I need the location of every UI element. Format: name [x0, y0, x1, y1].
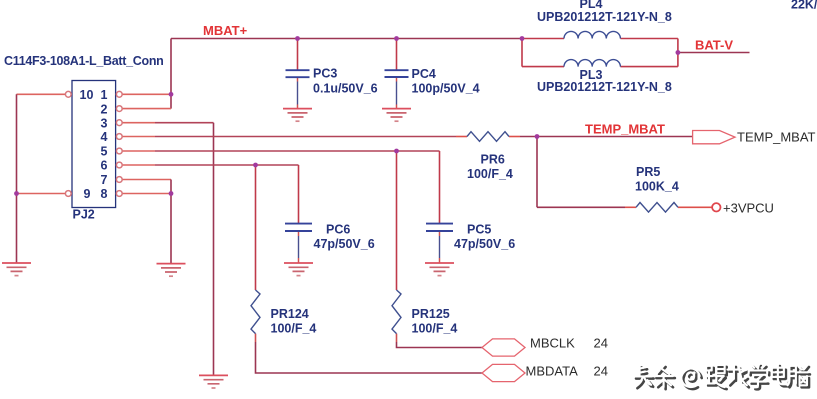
svg-text:6: 6: [101, 159, 108, 173]
svg-text:22K/: 22K/: [791, 0, 817, 12]
svg-text:2: 2: [101, 102, 108, 116]
PJ2 pin circles right: [116, 91, 122, 196]
svg-text:PJ2: PJ2: [73, 208, 95, 222]
wire BAT-V: [678, 52, 750, 54]
svg-text:MBCLK: MBCLK: [530, 336, 575, 351]
wire pin4 run to PR6: [122, 136, 467, 138]
PJ2 pin circles left: [65, 91, 71, 196]
ground PC3: [283, 109, 312, 122]
wire pin5 run: [122, 150, 440, 152]
wire PR124 bottom lead + MBDATA run: [256, 334, 483, 373]
wire MBAT+ main horizontal: [171, 38, 522, 40]
svg-text:100/F_4: 100/F_4: [467, 167, 513, 181]
wire PR125 bottom lead + MBCLK run: [397, 334, 483, 348]
wire MBAT+ vertical corner x=171: [170, 39, 172, 109]
svg-text:PR5: PR5: [636, 165, 660, 179]
capacitor PC5: [426, 224, 453, 231]
svg-text:100K_4: 100K_4: [635, 180, 679, 194]
wire PC3 top lead: [297, 39, 299, 71]
svg-text:UPB201212T-121Y-N_8: UPB201212T-121Y-N_8: [537, 80, 672, 94]
wire to PR5: [537, 206, 636, 208]
svg-text:0.1u/50V_6: 0.1u/50V_6: [313, 82, 378, 96]
svg-text:5: 5: [101, 145, 108, 159]
wire pin7 stub: [122, 179, 171, 181]
connector PJ2 body: [72, 81, 116, 208]
svg-text:BAT-V: BAT-V: [695, 38, 733, 53]
wire left vertical to ground: [16, 94, 18, 263]
svg-text:MBDATA: MBDATA: [526, 363, 579, 378]
svg-text:PR6: PR6: [481, 153, 505, 167]
wire PR124 top lead: [255, 165, 257, 290]
svg-text:100p/50V_4: 100p/50V_4: [412, 82, 480, 96]
wire PC6 bottom lead: [298, 231, 300, 263]
inductor PL3: [564, 60, 620, 67]
svg-text:1: 1: [101, 88, 108, 102]
ground PC4: [382, 109, 411, 122]
wire pin10 stub: [17, 93, 66, 95]
wire PC4 top lead: [396, 39, 398, 71]
svg-text:100/F_4: 100/F_4: [412, 322, 458, 336]
power terminal circle +3VPCU: [712, 203, 720, 211]
capacitor PC4: [385, 70, 409, 77]
wire PL left branch: [522, 39, 564, 67]
svg-text:24: 24: [594, 336, 608, 351]
wire TEMP junction vertical: [536, 137, 538, 208]
svg-text:TEMP_MBAT: TEMP_MBAT: [737, 130, 816, 145]
ground pin7/8: [157, 264, 186, 277]
wire pin7/8 vertical to ground: [170, 180, 172, 264]
resistor PR124: [251, 290, 260, 334]
svg-text:PR125: PR125: [412, 307, 450, 321]
svg-text:24: 24: [594, 363, 608, 378]
ground left: [2, 263, 31, 276]
wire pin3 vertical to ground: [213, 123, 215, 376]
svg-text:PC3: PC3: [313, 67, 337, 81]
resistor PR5: [636, 203, 678, 213]
svg-text:TEMP_MBAT: TEMP_MBAT: [585, 122, 665, 137]
svg-text:7: 7: [101, 173, 108, 187]
svg-text:UPB201212T-121Y-N_8: UPB201212T-121Y-N_8: [537, 10, 672, 24]
off-page tag TEMP_MBAT: [693, 131, 735, 144]
wire pin2 stub: [122, 108, 171, 110]
wire pin6 run: [122, 164, 299, 166]
off-page tag MBCLK: [482, 339, 525, 356]
capacitor PC6: [285, 224, 312, 231]
ground PC6: [284, 263, 313, 276]
ground bottom pin3: [199, 375, 228, 388]
PJ2 pin numbers: [80, 88, 108, 201]
svg-text:PR124: PR124: [271, 307, 309, 321]
svg-text:C114F3-108A1-L_Batt_Conn: C114F3-108A1-L_Batt_Conn: [4, 54, 164, 68]
inductor PL4: [564, 31, 620, 38]
wire PC3 bottom lead: [297, 77, 299, 108]
svg-text:MBAT+: MBAT+: [203, 23, 248, 38]
wire pin9 stub: [17, 193, 66, 195]
svg-text:47p/50V_6: 47p/50V_6: [454, 237, 515, 251]
wire PC5 drop vertical: [439, 151, 441, 224]
resistor PR125: [392, 290, 401, 334]
wire pin8 stub: [122, 193, 171, 195]
wire PR125 top lead: [396, 151, 398, 290]
wire PC5 bottom lead: [439, 231, 441, 263]
wire PR5 to +3VPCU circle: [678, 206, 712, 208]
wire PC6 drop vertical: [298, 165, 300, 224]
svg-text:100/F_4: 100/F_4: [271, 322, 317, 336]
watermark 头条@跟我学电脑: [634, 364, 810, 389]
off-page tag MBDATA: [482, 364, 525, 381]
ground PC5: [425, 263, 454, 276]
svg-text:8: 8: [101, 187, 108, 201]
svg-text:PC5: PC5: [467, 223, 491, 237]
svg-text:9: 9: [84, 187, 91, 201]
svg-text:+3VPCU: +3VPCU: [723, 201, 774, 216]
resistor PR6: [467, 132, 509, 142]
wire PR6 to TEMP_MBAT tag: [509, 136, 694, 138]
svg-text:PC6: PC6: [326, 223, 350, 237]
svg-text:10: 10: [80, 88, 94, 102]
svg-text:4: 4: [101, 130, 108, 144]
wire pin3 run: [122, 122, 214, 124]
svg-text:3: 3: [101, 116, 108, 130]
wire PC4 bottom lead: [396, 77, 398, 109]
capacitor PC3: [286, 70, 310, 77]
wire pin1 stub: [122, 93, 171, 95]
svg-text:47p/50V_6: 47p/50V_6: [314, 237, 375, 251]
svg-text:PC4: PC4: [412, 67, 436, 81]
wire PL right branch: [620, 39, 678, 67]
